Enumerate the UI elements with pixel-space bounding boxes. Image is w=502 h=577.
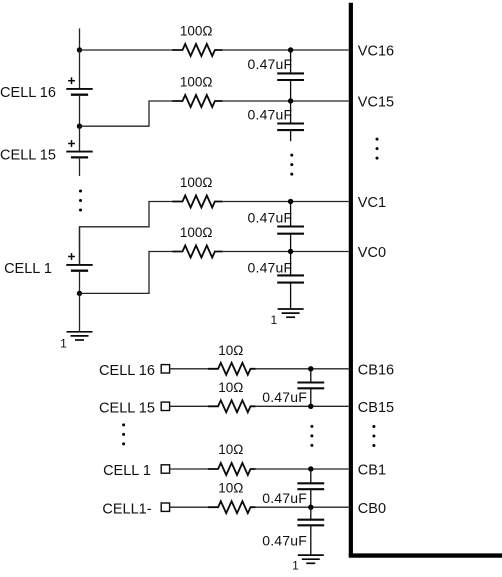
svg-text:10Ω: 10Ω bbox=[218, 380, 243, 395]
wire: R to CB16 pin bbox=[256, 368, 349, 370]
junction: VC16 cap node bbox=[288, 47, 293, 52]
resistor 100Ω (VC16 row) bbox=[172, 44, 223, 56]
ellipsis: cell inputs continue bbox=[122, 423, 125, 445]
svg-text:CB0: CB0 bbox=[358, 501, 386, 517]
svg-text:CELL 15: CELL 15 bbox=[0, 148, 56, 164]
svg-text:10Ω: 10Ω bbox=[218, 343, 243, 358]
resistor 10Ω (CB15 row) bbox=[208, 400, 256, 412]
junction: VC1 cap node bbox=[288, 199, 293, 204]
junction: CELL16/CELL15 node bbox=[77, 124, 82, 129]
ellipsis: balance cap chain continues bbox=[310, 425, 313, 447]
wire: negative node down to ground bbox=[79, 293, 81, 331]
wire: R to VC0 pin bbox=[223, 251, 349, 253]
svg-text:1: 1 bbox=[270, 313, 277, 327]
wire: CELL1 positive jog up to VC1 row bbox=[80, 202, 173, 265]
svg-text:0.47uF: 0.47uF bbox=[248, 107, 293, 123]
svg-text:0.47uF: 0.47uF bbox=[262, 389, 307, 405]
svg-text:1: 1 bbox=[292, 558, 299, 572]
svg-text:1: 1 bbox=[60, 337, 67, 351]
IC body edge (bottom horizontal) bbox=[349, 553, 502, 557]
svg-text:VC16: VC16 bbox=[358, 44, 394, 60]
svg-text:CELL 16: CELL 16 bbox=[99, 363, 155, 379]
wire: node to CELL16 top plate bbox=[79, 50, 81, 89]
battery CELL 1 bbox=[66, 265, 92, 271]
battery plus sign bbox=[68, 77, 75, 84]
svg-text:CB15: CB15 bbox=[358, 400, 394, 416]
IC body edge (vertical bus) bbox=[349, 3, 353, 556]
capacitor 0.47uF (VC1-VC0) bbox=[277, 202, 304, 252]
svg-text:CELL1-: CELL1- bbox=[102, 501, 151, 517]
wire: CELL1 terminal to R bbox=[170, 468, 208, 470]
svg-text:100Ω: 100Ω bbox=[180, 225, 213, 240]
ground (VC0 cap, net 1) bbox=[278, 309, 304, 317]
wire: R to VC16 pin bbox=[223, 49, 349, 51]
wire: R to VC15 pin bbox=[223, 100, 349, 102]
resistor 10Ω (CB0 row) bbox=[208, 501, 256, 513]
svg-text:CELL 1: CELL 1 bbox=[4, 261, 52, 277]
junction: CELL1 negative node bbox=[77, 291, 82, 296]
svg-text:CELL 1: CELL 1 bbox=[103, 463, 151, 479]
battery plus sign bbox=[68, 253, 75, 260]
svg-text:0.47uF: 0.47uF bbox=[248, 56, 293, 72]
svg-text:100Ω: 100Ω bbox=[180, 74, 213, 89]
resistor 10Ω (CB1 row) bbox=[208, 463, 256, 475]
ellipsis: battery stack continues bbox=[79, 190, 82, 212]
svg-text:CELL 15: CELL 15 bbox=[99, 401, 155, 417]
wire: CELL1 negative jog up to VC0 row bbox=[80, 252, 173, 294]
terminal square CELL1- bbox=[161, 503, 169, 511]
junction: VC15 cap node bbox=[288, 98, 293, 103]
wire: CELL16 bottom to mid node bbox=[79, 95, 81, 127]
svg-text:0.47uF: 0.47uF bbox=[262, 533, 307, 549]
junction: CB1 cap node bbox=[308, 466, 313, 471]
svg-text:100Ω: 100Ω bbox=[180, 23, 213, 38]
ground (battery stack, net 1) bbox=[67, 332, 93, 340]
wire: R to CB0 pin bbox=[256, 506, 349, 508]
svg-text:VC0: VC0 bbox=[358, 245, 386, 261]
wire: CELL1 bottom to negative node bbox=[79, 271, 81, 294]
capacitor 0.47uF (CB1-CB0) bbox=[297, 469, 324, 507]
terminal square CELL 15 bbox=[161, 402, 169, 410]
resistor 100Ω (VC0 row) bbox=[172, 246, 223, 258]
wire: R to CB15 pin bbox=[256, 405, 349, 407]
junction: VC0 cap node bbox=[288, 249, 293, 254]
resistor 10Ω (CB16 row) bbox=[208, 363, 256, 375]
svg-text:CB16: CB16 bbox=[358, 363, 394, 379]
resistor 100Ω (VC1 row) bbox=[172, 196, 223, 208]
svg-text:VC1: VC1 bbox=[358, 195, 386, 211]
ground (CB0 cap, net 1) bbox=[298, 555, 324, 563]
junction: CB16 cap node bbox=[308, 366, 313, 371]
wire: CELL16/15 node jog up to VC15 row bbox=[80, 101, 173, 126]
battery CELL 15 bbox=[66, 152, 92, 158]
wire: R to VC1 pin bbox=[223, 201, 349, 203]
capacitor 0.47uF (CB0 to ground) bbox=[297, 507, 324, 555]
wire: CELL15 bottom stub bbox=[79, 157, 81, 176]
terminal square CELL 1 bbox=[161, 465, 169, 473]
svg-text:10Ω: 10Ω bbox=[218, 442, 243, 457]
svg-text:0.47uF: 0.47uF bbox=[248, 259, 293, 275]
wire: CELL1 top stub bbox=[79, 227, 81, 265]
junction: CELL16 positive node bbox=[77, 47, 82, 52]
wire: VC16 node to R bbox=[80, 49, 173, 51]
ellipsis: IC pins continue (VC) bbox=[376, 138, 379, 160]
capacitor 0.47uF (VC0 to ground) bbox=[277, 252, 304, 310]
capacitor 0.47uF (CB16-CB15) bbox=[297, 369, 324, 407]
wire: stub above top-of-stack node bbox=[79, 28, 81, 50]
svg-text:CB1: CB1 bbox=[358, 463, 386, 479]
wire: R to CB1 pin bbox=[256, 468, 349, 470]
battery CELL 16 bbox=[66, 89, 92, 95]
svg-text:VC15: VC15 bbox=[358, 95, 394, 111]
capacitor 0.47uF (VC15 down) bbox=[277, 101, 304, 141]
battery plus sign bbox=[68, 140, 75, 147]
capacitor 0.47uF (VC16-VC15) bbox=[277, 50, 304, 101]
wire: CELL15 terminal to R bbox=[170, 405, 208, 407]
wire: mid node to CELL15 top plate bbox=[79, 126, 81, 151]
junction: CB15 cap node bbox=[308, 404, 313, 409]
wire: CELL1- terminal to R bbox=[170, 506, 208, 508]
junction: CB0 cap node bbox=[308, 505, 313, 510]
resistor 100Ω (VC15 row) bbox=[172, 95, 223, 107]
svg-text:0.47uF: 0.47uF bbox=[248, 210, 293, 226]
terminal square CELL 16 bbox=[161, 365, 169, 373]
ellipsis: cap chain continues bbox=[290, 154, 293, 176]
wire: CELL16 terminal to R bbox=[170, 368, 208, 370]
ellipsis: IC pins continue (CB) bbox=[372, 425, 375, 447]
svg-text:CELL 16: CELL 16 bbox=[0, 85, 56, 101]
svg-text:0.47uF: 0.47uF bbox=[262, 490, 307, 506]
svg-text:10Ω: 10Ω bbox=[218, 480, 243, 495]
svg-text:100Ω: 100Ω bbox=[180, 175, 213, 190]
